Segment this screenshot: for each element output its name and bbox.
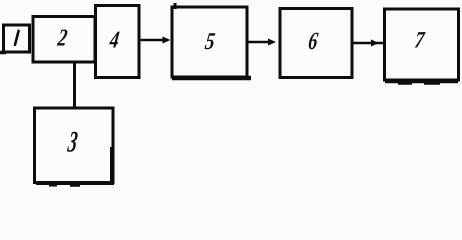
svg-text:5: 5 <box>204 28 217 55</box>
svg-text:6: 6 <box>307 27 320 54</box>
svg-text:2: 2 <box>55 24 69 51</box>
svg-text:7: 7 <box>413 26 427 53</box>
svg-text:4: 4 <box>107 26 121 53</box>
svg-text:3: 3 <box>65 126 79 159</box>
